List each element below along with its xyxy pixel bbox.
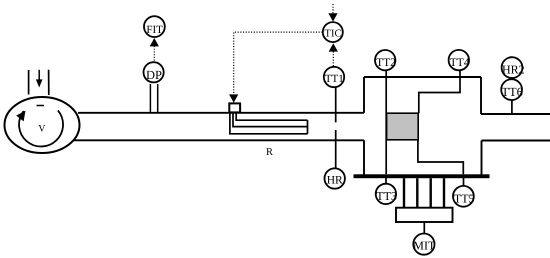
outlet bottom riser <box>481 141 483 175</box>
block step outline <box>418 140 463 174</box>
fan rotation arrow arc <box>19 110 63 146</box>
instrument TT1 <box>324 67 344 87</box>
svg-text:DP: DP <box>146 68 162 82</box>
inlet pipe left wall <box>28 70 30 95</box>
TT4 probe line <box>419 70 460 113</box>
heated block (gray) <box>387 113 419 140</box>
svg-text:HR: HR <box>327 175 343 187</box>
heater right fold <box>307 120 309 134</box>
heat sink fin 1 <box>403 178 405 208</box>
svg-text:V: V <box>38 124 46 135</box>
svg-text:TIC: TIC <box>325 29 342 40</box>
heater housing box <box>396 208 453 222</box>
inlet flow arrow <box>38 70 40 81</box>
heater lead 2 <box>233 112 308 126</box>
TT1 probe <box>335 87 337 122</box>
instrument TT6 <box>501 79 522 100</box>
heat sink base plate (thick bar) <box>354 174 490 178</box>
svg-text:TT4: TT4 <box>450 57 470 69</box>
TT6 probe line <box>511 101 513 115</box>
svg-text:TT6: TT6 <box>501 85 523 99</box>
instrument HR <box>325 168 345 188</box>
outlet duct top wall <box>481 113 550 115</box>
instrument TT5 <box>453 186 474 207</box>
signal TT1 to TIC (dotted, arrow up) <box>332 52 334 67</box>
heat sink fin 2 <box>416 178 418 208</box>
MIT lead <box>423 222 425 233</box>
TT3 probe line <box>385 178 387 184</box>
heater lead 1 <box>236 112 307 120</box>
duct top wall <box>78 112 364 114</box>
svg-text:R: R <box>266 147 273 158</box>
HR probe <box>335 130 337 168</box>
svg-text:FIT: FIT <box>146 24 163 36</box>
instrument TT3 <box>376 184 396 204</box>
instrument TT4 <box>449 50 469 70</box>
TT2 probe line <box>385 71 387 175</box>
setpoint to TIC (dotted, arrow down) <box>332 4 334 14</box>
svg-text:MIT: MIT <box>413 238 436 252</box>
test section right drop <box>480 77 482 114</box>
controller TIC <box>323 22 343 42</box>
instrument FIT <box>144 16 165 37</box>
inlet pipe right wall <box>48 70 50 95</box>
DP tapping stem <box>149 84 151 113</box>
svg-text:TT1: TT1 <box>325 73 344 85</box>
instrument TT2 <box>375 50 395 70</box>
test section left riser <box>363 77 365 113</box>
instrument DP <box>144 62 164 82</box>
test section top wall <box>364 76 481 78</box>
outlet duct bottom wall <box>482 140 550 142</box>
fan inlet tick <box>37 105 45 107</box>
signal DP to FIT (dotted) <box>153 46 155 61</box>
duct bottom wall <box>74 139 364 141</box>
heater terminal box <box>229 103 240 112</box>
svg-text:HR2: HR2 <box>502 62 525 76</box>
heat sink fin 3 <box>430 178 432 208</box>
instrument HR2 <box>502 57 523 78</box>
fan rotation arrowhead <box>16 111 25 122</box>
fan V ellipse <box>5 97 80 153</box>
test section left bottom drop <box>363 140 365 174</box>
heater lead 3 <box>230 112 308 134</box>
instrument MIT <box>413 234 434 255</box>
heat sink fin 4 <box>443 178 445 208</box>
svg-text:TT2: TT2 <box>376 57 396 69</box>
svg-text:TT5: TT5 <box>454 191 475 205</box>
signal TIC to heater (dotted, arrow down onto box) <box>234 32 323 94</box>
TT5 probe line <box>463 178 465 186</box>
svg-text:TT3: TT3 <box>376 189 397 203</box>
